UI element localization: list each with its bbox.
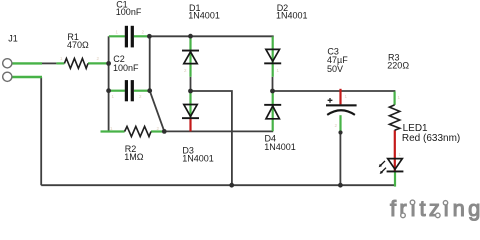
node C3 wire bendpoint <box>338 130 342 134</box>
wire top rail C1 to D1 to D2 <box>149 35 273 37</box>
svg-text:220Ω: 220Ω <box>387 61 409 71</box>
capacitor C1 plates <box>125 26 128 48</box>
LED LED1 symbol <box>388 159 403 170</box>
capacitor C3 plus plate <box>326 104 357 106</box>
svg-text:1N4001: 1N4001 <box>276 11 308 21</box>
svg-text:1MΩ: 1MΩ <box>124 152 144 162</box>
node C2 right junction <box>147 88 152 93</box>
svg-text:2: 2 <box>142 30 145 35</box>
svg-text:2: 2 <box>157 126 160 131</box>
capacitor C2 plates <box>125 80 128 101</box>
node bottom rail junction C3 <box>338 183 343 188</box>
node bottom rail junction 1 <box>229 183 234 188</box>
node C2 left junction <box>106 88 111 93</box>
pin leg J1 pin1 <box>12 62 42 64</box>
wire D2 bottom to node <box>272 77 274 91</box>
svg-text:1: 1 <box>116 30 119 35</box>
svg-text:1: 1 <box>399 152 402 157</box>
svg-text:Red (633nm): Red (633nm) <box>402 133 460 144</box>
pin leg LED1 cathode <box>394 172 396 187</box>
pin leg R2 pin2 <box>151 130 164 132</box>
capacitor C3 minus arc <box>327 110 355 115</box>
pin leg R3 top <box>394 92 396 105</box>
svg-text:50V: 50V <box>327 64 343 74</box>
svg-text:1: 1 <box>398 95 401 100</box>
resistor R1 zigzag <box>64 58 88 68</box>
capacitor C3 plus sign <box>328 98 333 103</box>
pin leg J1 pin2 <box>12 76 42 78</box>
wire red C3 plus <box>339 89 341 105</box>
wire red R3 to LED1 <box>394 130 396 171</box>
pin leg C1 pin1 <box>109 35 125 37</box>
diode D4 symbol <box>264 104 281 106</box>
svg-text:1: 1 <box>110 126 113 131</box>
wire J1.2 down to bottom rail <box>40 77 42 185</box>
node D1 top junction <box>188 34 193 39</box>
svg-text:1: 1 <box>345 94 348 99</box>
pin number labels <box>60 30 402 158</box>
node D2/D4 junction <box>270 89 275 94</box>
wire rail R2/D3/D4 bottoms <box>164 130 273 132</box>
wire D1 anode to node <box>190 77 192 91</box>
node R1/C1/C2/R2 junction at R1 <box>106 61 111 66</box>
pin leg D4 vertical <box>272 92 274 132</box>
svg-text:2: 2 <box>97 56 100 61</box>
node R2 right junction <box>162 129 167 134</box>
svg-text:100nF: 100nF <box>113 63 139 73</box>
diode D3 symbol <box>184 105 197 117</box>
svg-text:1: 1 <box>112 94 115 99</box>
svg-text:2: 2 <box>335 123 338 128</box>
pin leg D1 vertical <box>189 37 191 77</box>
connector J1 pin1 terminal <box>3 59 12 68</box>
wire C1 right to C2 right vertical <box>149 36 151 90</box>
wire bottom rail (ground return) <box>41 184 396 186</box>
pin leg R2 pin1 <box>101 130 125 132</box>
wire J1.1 to R1 <box>42 62 56 64</box>
svg-text:1N4001: 1N4001 <box>264 142 296 152</box>
diode D1 symbol <box>182 50 199 52</box>
pin leg C1 pin2 <box>134 35 149 37</box>
resistor R2 zigzag <box>125 126 151 136</box>
fritzing logo ring z <box>436 213 441 218</box>
svg-text:1: 1 <box>60 56 63 61</box>
fritzing logo ring i1 <box>410 200 415 205</box>
node D1/D3 junction <box>188 89 193 94</box>
resistor R3 zigzag <box>389 105 399 130</box>
pin leg R1 pin1 <box>56 62 64 64</box>
svg-text:2: 2 <box>184 68 187 73</box>
LED LED1 light arrows <box>380 161 385 166</box>
svg-text:1N4001: 1N4001 <box>182 153 214 163</box>
fritzing logo ring r <box>401 213 406 218</box>
diode D2 symbol <box>266 49 280 61</box>
svg-text:100nF: 100nF <box>116 7 142 17</box>
svg-text:2: 2 <box>139 94 142 99</box>
wire C3 bottom to bottom rail <box>339 133 341 186</box>
svg-text:470Ω: 470Ω <box>67 40 89 50</box>
pin leg C2 pin1 <box>109 90 125 92</box>
svg-text:1N4001: 1N4001 <box>188 11 220 21</box>
wire node A vertical (R1/C1/C2/R2 left bus) <box>108 36 110 130</box>
node C1 right junction <box>147 34 152 39</box>
connector J1 pin2 terminal <box>3 72 12 81</box>
wire diagonal C2 right to R2 right <box>150 91 165 132</box>
svg-text:J1: J1 <box>8 34 18 44</box>
wire red D3 cathode to rail <box>189 117 191 131</box>
wire mid rail D2/D4 node to C3 and R3 <box>273 90 396 92</box>
pin leg D2 vertical <box>272 37 274 77</box>
wire node D1/D3 to bottom rail <box>191 91 232 185</box>
pin leg C2 pin2 <box>134 90 149 92</box>
pin leg D3 top <box>189 92 191 117</box>
svg-text:1: 1 <box>277 68 280 73</box>
pin leg C3 minus <box>339 115 341 132</box>
fritzing logo ring i2 <box>443 201 447 205</box>
pin leg R1 pin2 <box>88 62 108 64</box>
